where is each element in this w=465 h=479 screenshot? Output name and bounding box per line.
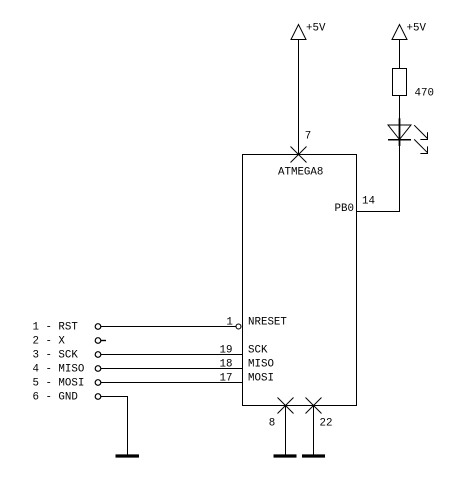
svg-text:8: 8 <box>269 418 275 430</box>
power +5V symbol (right) <box>392 25 407 40</box>
IC U1 ATMEGA8 body <box>243 155 357 406</box>
svg-text:ATMEGA8: ATMEGA8 <box>278 167 323 179</box>
connector pad 6 <box>95 394 101 400</box>
pin 8 cross <box>278 398 294 414</box>
svg-text:+5V: +5V <box>306 23 326 35</box>
svg-text:7: 7 <box>305 130 311 142</box>
wire pin 22 to ground <box>313 406 315 455</box>
svg-text:470: 470 <box>415 88 434 100</box>
LED light arrow 2 <box>414 139 427 153</box>
svg-text:22: 22 <box>320 418 333 430</box>
svg-text:MOSI: MOSI <box>248 373 274 385</box>
wire pin 8 to ground <box>285 406 287 455</box>
pin 22 cross <box>306 398 322 414</box>
svg-text:MISO: MISO <box>248 359 274 371</box>
svg-text:19: 19 <box>220 345 233 357</box>
svg-text:6 - GND: 6 - GND <box>33 392 78 404</box>
svg-text:NRESET: NRESET <box>248 317 287 329</box>
connector pad 4 <box>95 366 101 372</box>
connector pad 1 <box>95 324 101 330</box>
svg-text:1: 1 <box>226 317 232 329</box>
LED light arrow 1 <box>414 125 427 139</box>
ground symbol (connector) <box>116 454 140 457</box>
svg-text:+5V: +5V <box>407 23 427 35</box>
svg-text:PB0: PB0 <box>335 203 354 215</box>
svg-text:18: 18 <box>220 359 233 371</box>
svg-text:1 - RST: 1 - RST <box>33 322 79 334</box>
svg-text:14: 14 <box>362 195 375 207</box>
wire resistor to LED <box>399 96 401 126</box>
svg-text:17: 17 <box>220 373 233 385</box>
LED D1 <box>388 118 411 146</box>
svg-text:4 - MISO: 4 - MISO <box>33 364 85 376</box>
ground symbol (pin 22) <box>302 454 325 457</box>
power +5V symbol (left) <box>291 25 306 40</box>
connector pad 5 <box>95 380 101 386</box>
connector pad 2 <box>95 338 101 344</box>
wire GND <box>101 397 128 455</box>
wire MISO <box>101 368 243 370</box>
wire stub pad 2 <box>101 340 106 342</box>
connector pad 3 <box>95 352 101 358</box>
wire +5V to resistor <box>399 40 401 69</box>
wire SCK <box>101 354 243 356</box>
wire LED to pin 14 <box>357 140 400 212</box>
wire +5V to pin 7 <box>298 40 300 155</box>
pin 7 cross <box>291 147 307 163</box>
svg-text:5 - MOSI: 5 - MOSI <box>33 378 85 390</box>
wire RST to NRESET <box>101 326 236 328</box>
svg-text:SCK: SCK <box>248 345 268 357</box>
svg-text:2 - X: 2 - X <box>33 336 66 348</box>
wire MOSI <box>101 382 243 384</box>
svg-text:3 - SCK: 3 - SCK <box>33 350 79 362</box>
resistor R1 470 <box>393 69 407 96</box>
ground symbol (pin 8) <box>274 454 297 457</box>
NRESET inverting bubble <box>236 324 241 329</box>
